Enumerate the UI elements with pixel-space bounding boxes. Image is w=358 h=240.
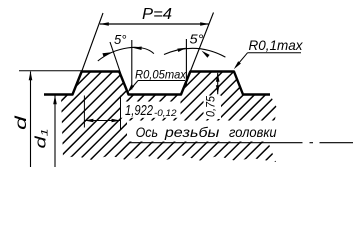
- svg-text:5°: 5°: [190, 32, 204, 47]
- dimension P=4: line with outward arrows: [100, 23, 209, 25]
- svg-text:d: d: [12, 115, 30, 130]
- centerline (thread axis, dash-dot): [129, 142, 303, 144]
- svg-text:5°: 5°: [114, 32, 126, 47]
- angle 5deg tooth1: short flank-profile line: [110, 42, 121, 73]
- hatching of sectioned material: [0, 58, 358, 166]
- svg-text:0,75: 0,75: [206, 95, 218, 117]
- extension line: tooth 1 left flank extended up for P dimension: [82, 13, 103, 72]
- extension line: tooth 2 left flank extended up for P dimension: [190, 13, 213, 72]
- white label boxes over hatching: [120, 102, 181, 118]
- svg-text:R0,05max: R0,05max: [135, 67, 187, 81]
- dimension d1: vertical line + up arrow: [54, 96, 56, 168]
- angle 5deg tooth2: dimension arc: [164, 48, 225, 57]
- dimension 0,75: tooth height, arrows up/down: [217, 73, 219, 94]
- svg-text:головки: головки: [229, 124, 277, 140]
- svg-text:резьбы: резьбы: [164, 124, 220, 140]
- svg-text:R0,1max: R0,1max: [249, 37, 304, 53]
- angle 5deg tooth1: dimension arc: [98, 47, 154, 61]
- wire: d crest extension line: [19, 70, 82, 72]
- svg-text:Ось: Ось: [136, 124, 158, 140]
- dimension 1,922-0,12: extension lines from crest corners down: [83, 96, 85, 128]
- angle 5deg tooth1: vertical reference line: [131, 40, 133, 90]
- svg-text:P=4: P=4: [142, 6, 172, 23]
- dimension d: vertical line + up arrow: [30, 72, 32, 168]
- angle 5deg tooth2: vertical reference line: [185, 39, 187, 86]
- thread profile outline (thick): root, flanks, crests of two teeth: [44, 72, 270, 95]
